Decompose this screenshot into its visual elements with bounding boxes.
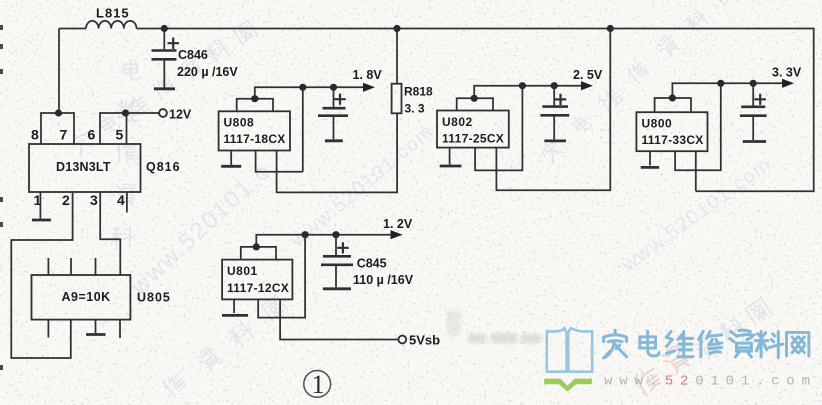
svg-text:D13N3LT: D13N3LT (56, 160, 111, 174)
node ADJ rail junction 2.5 (519, 82, 526, 89)
wire: U801 VIN to 5Vsb (280, 299, 398, 339)
arrow 1.2V (391, 230, 403, 239)
svg-text:1117-33CX: 1117-33CX (642, 133, 704, 147)
regulator U802 (437, 111, 509, 148)
svg-text:C845: C845 (357, 257, 387, 271)
ground U802 (440, 165, 462, 168)
ground pin1 (32, 219, 51, 222)
arrow 3.3V (782, 79, 794, 88)
node on bracket (471, 95, 478, 102)
wire: U800 VIN pin to right rail (695, 151, 697, 191)
svg-text:2: 2 (62, 192, 70, 208)
capacitor on 1.8V rail (333, 87, 335, 108)
svg-text:C846: C846 (178, 48, 208, 62)
svg-text:7: 7 (60, 127, 68, 143)
svg-text:1117-18CX: 1117-18CX (224, 132, 286, 146)
wire: pin4 stub (126, 192, 128, 213)
wire: pin1 (39, 192, 41, 219)
arrow 1.8V (363, 83, 375, 92)
wire: U808 VIN from R818 (277, 113, 398, 192)
svg-text:U805: U805 (137, 291, 171, 305)
svg-text:3: 3 (90, 192, 98, 208)
capacitor C846 (163, 29, 165, 51)
svg-text:Q816: Q816 (146, 160, 181, 174)
svg-text:8: 8 (31, 127, 39, 143)
svg-text:U801: U801 (227, 264, 258, 278)
ground U808 (221, 165, 241, 168)
wire: U800 ground pin (649, 151, 651, 165)
node ADJ rail junction 1.2 (302, 231, 309, 238)
wire: U805 bottom stubs (48, 320, 120, 338)
node: junction at C846 (161, 25, 168, 32)
node ADJ rail junction (299, 84, 306, 91)
watermark line G: chinese bottom-left diagonal (162, 294, 288, 399)
svg-text:www.520101.com: www.520101.com (604, 374, 817, 390)
svg-text:1. 8V: 1. 8V (353, 68, 383, 82)
svg-text:5: 5 (116, 127, 124, 143)
wire: U802 top bracket (457, 98, 493, 110)
regulator U801 (222, 260, 292, 300)
capacitor on 3.3V rail (752, 83, 754, 106)
wire: U802 ADJ feedback (475, 86, 522, 171)
arrow 2.5V (581, 81, 593, 90)
wire: to 12V terminal (127, 112, 160, 114)
watermark line E: chinese diagonal right (539, 0, 738, 163)
regulator U808 (219, 111, 290, 150)
resistor R818 (396, 29, 398, 84)
node 12V terminal (159, 109, 167, 117)
regulator U800 (636, 112, 707, 151)
watermark line A: chinese diagonal top-left (68, 19, 258, 156)
node: junction on bracket (55, 109, 62, 116)
wire: U808 ground pin (230, 151, 232, 166)
wire: U800 ADJ feedback (675, 83, 721, 170)
wire: 3.3V output rail (672, 83, 783, 98)
node on bracket (253, 243, 260, 250)
wire: U808 ADJ feedback (256, 87, 303, 171)
capacitor C845 (335, 235, 337, 256)
svg-text:1. 2V: 1. 2V (383, 217, 413, 231)
wire: U805 top stubs (48, 258, 95, 275)
inductor L815 (86, 21, 137, 29)
wire: U801 ADJ feedback (258, 235, 305, 318)
svg-text:3. 3: 3. 3 (405, 102, 425, 116)
svg-text:12V: 12V (169, 108, 192, 122)
svg-text:U800: U800 (642, 117, 673, 131)
svg-text:1117-25CX: 1117-25CX (442, 132, 504, 146)
wire: U802 VIN from raw rail (496, 29, 610, 191)
node 5Vsb terminal (398, 336, 406, 344)
svg-text:110 µ /16V: 110 µ /16V (353, 273, 414, 287)
node cap junction C845 (332, 231, 339, 238)
wire: U802 ground pin (449, 148, 451, 165)
svg-text:4: 4 (117, 192, 125, 208)
ground U800 (641, 166, 660, 169)
svg-text:6: 6 (88, 127, 96, 143)
transistor Q816 (D13N3LT module) (29, 144, 141, 192)
wire: 1.8V output rail (255, 87, 365, 98)
node cap junction 1.8 (330, 84, 337, 91)
svg-text:1: 1 (312, 370, 325, 399)
node on bracket (669, 94, 676, 101)
svg-text:5Vsb: 5Vsb (409, 333, 440, 348)
figure number circle (304, 371, 331, 398)
svg-text:U808: U808 (224, 116, 255, 130)
scan artifacts left edge (0, 25, 3, 370)
node: junction pin5 (122, 109, 129, 116)
svg-text:L815: L815 (96, 6, 130, 21)
wire: pin3 to U805 top (100, 192, 120, 275)
wire: U801 top bracket (241, 247, 276, 260)
svg-text:A9=10K: A9=10K (62, 290, 111, 304)
wire: raw supply rail top (137, 29, 814, 192)
node ADJ rail junction 3.3 (717, 80, 724, 87)
svg-text:2. 5V: 2. 5V (573, 68, 603, 82)
wire: U800 top bracket (655, 98, 691, 112)
svg-text:U802: U802 (442, 115, 473, 129)
wire: U808 top bracket (237, 99, 273, 112)
svg-text:3. 3V: 3. 3V (772, 66, 802, 80)
svg-text:1117-12CX: 1117-12CX (227, 281, 289, 295)
ground U805 (95, 320, 97, 333)
resistor network U805 (A9=10K) (32, 275, 131, 320)
wire: left vertical from L815 down to Q816 (58, 29, 60, 114)
logo green swoosh (544, 379, 592, 392)
wire: left lead of inductor (59, 28, 86, 30)
wire: 2.5V output rail (474, 86, 582, 99)
node cap junction 3.3 (750, 80, 757, 87)
wire: bracket pins 6-5 (100, 113, 127, 144)
logo book icon (547, 328, 592, 372)
svg-text:220 µ /16V: 220 µ /16V (177, 65, 238, 79)
wire: 1.2V output rail (256, 235, 392, 247)
faint scan smudges and stamp remnants (447, 298, 772, 397)
wire: pin2 loop to U805 (11, 192, 72, 358)
ground U801 (222, 314, 248, 317)
svg-text:R818: R818 (404, 85, 433, 99)
node on bracket (251, 95, 258, 102)
wire: U801 ground pin (233, 299, 235, 313)
wire: bracket pins 8-7 (41, 113, 74, 144)
node cap junction 2.5 (551, 82, 558, 89)
capacitor on 2.5V rail (553, 86, 555, 107)
watermark column B: vertical chinese left (112, 60, 140, 248)
logo chinese title (604, 330, 809, 358)
